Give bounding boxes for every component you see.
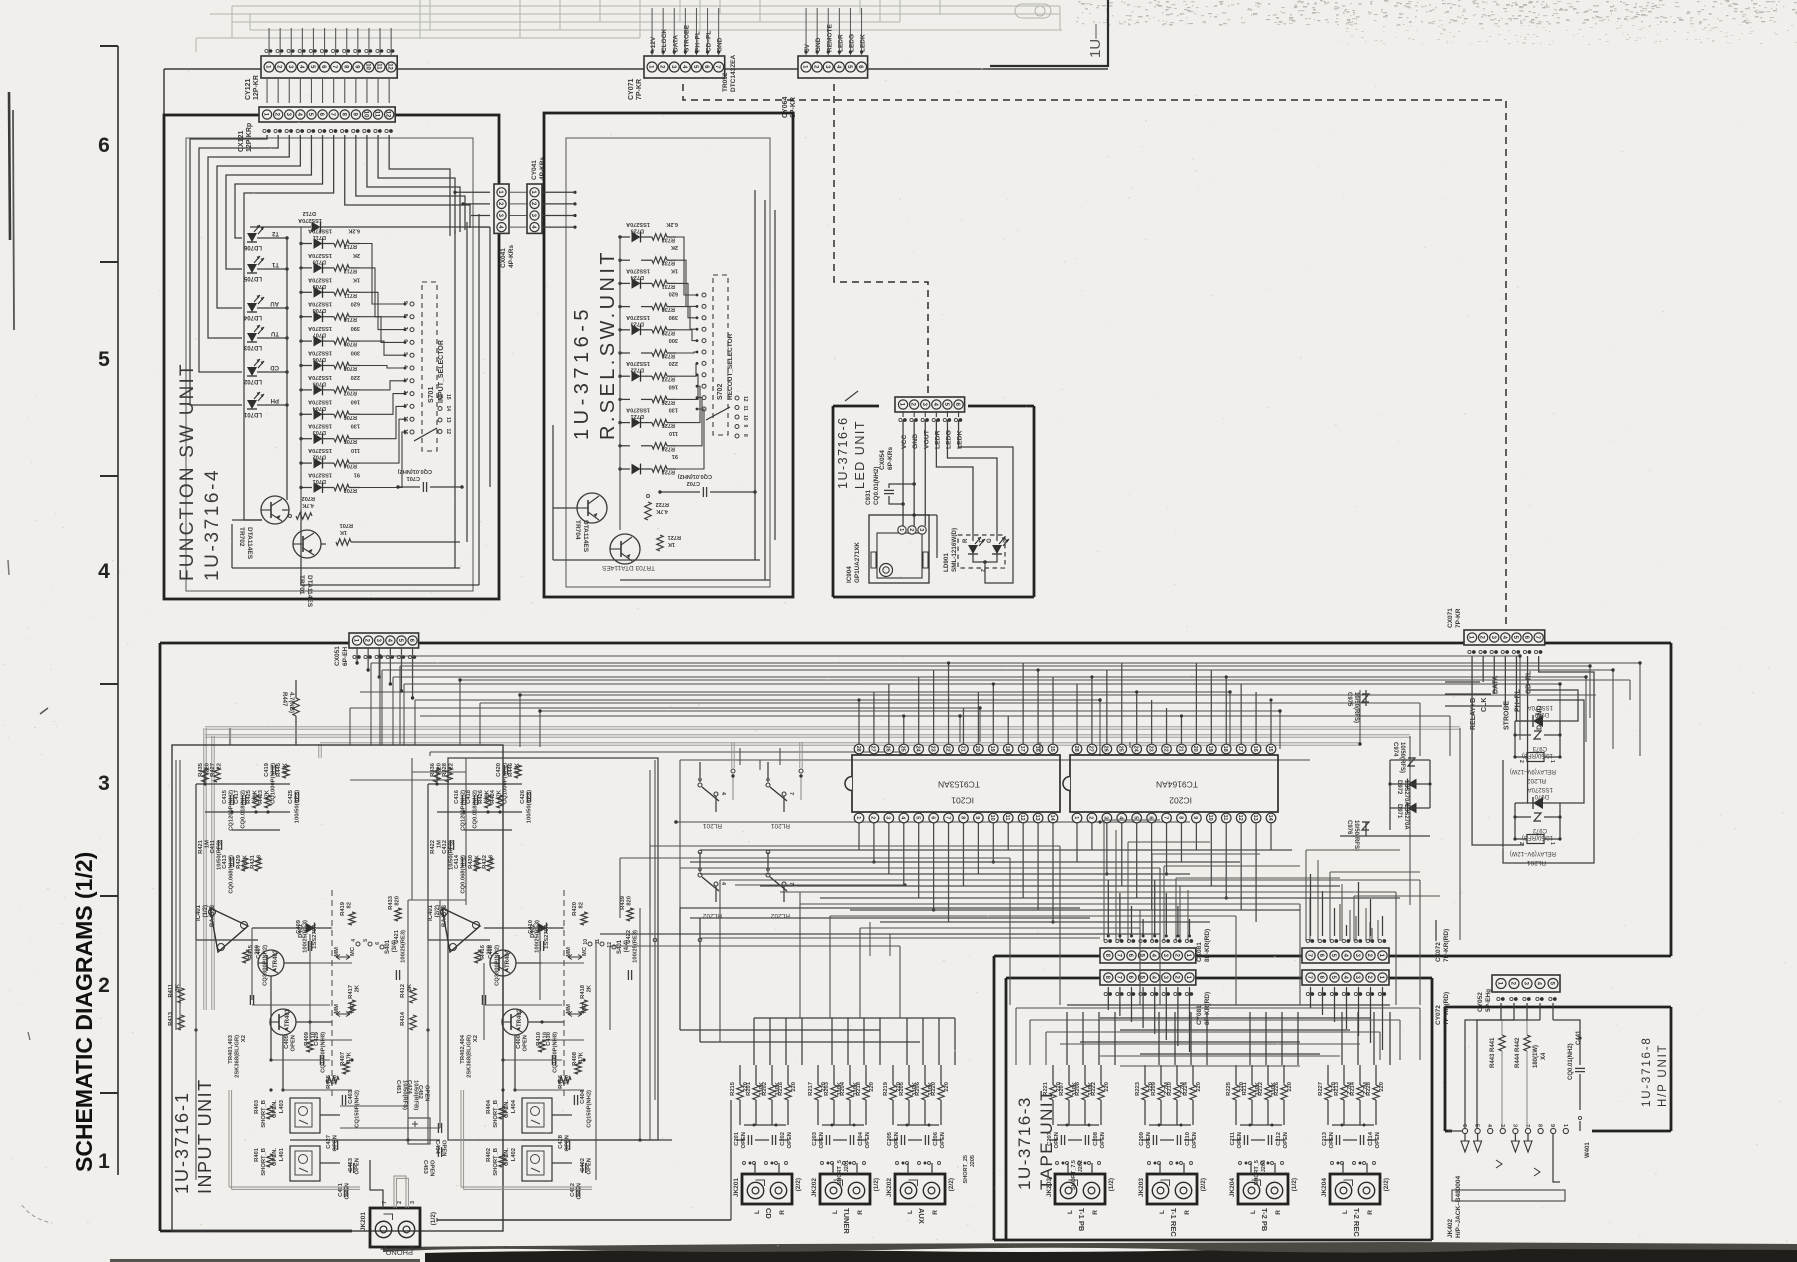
svg-text:D969: D969 <box>1534 711 1549 717</box>
svg-text:C428: C428 <box>558 1134 564 1149</box>
capacitor C973 10/50(RFS) <box>1515 734 1531 736</box>
svg-text:R702: R702 <box>302 495 315 501</box>
svg-text:CLK: CLK <box>1481 698 1488 712</box>
tape unit internal wires <box>1016 1007 1420 1009</box>
diode D708 1SS270A / resistor R710 620 <box>301 316 312 318</box>
svg-text:CQ1000P(NH8): CQ1000P(NH8) <box>553 1032 559 1073</box>
svg-text:1U-3716-4: 1U-3716-4 <box>202 468 223 581</box>
connector CY121 12P-KR <box>261 56 397 78</box>
svg-text:R224: R224 <box>1183 1081 1189 1096</box>
svg-text:R225: R225 <box>1226 1081 1232 1096</box>
wire staircase from CX121 into function unit <box>190 135 267 405</box>
svg-text:PH: PH <box>271 397 279 403</box>
svg-text:15: 15 <box>1267 746 1273 752</box>
svg-text:160: 160 <box>669 383 678 389</box>
connector CX121 12P-KRp <box>259 107 395 122</box>
svg-text:2SK368(BL/GR): 2SK368(BL/GR) <box>235 1035 241 1078</box>
svg-text:JK201: JK201 <box>733 1178 740 1198</box>
svg-text:220: 220 <box>1379 1082 1385 1092</box>
svg-text:5: 5 <box>914 816 920 819</box>
svg-text:1: 1 <box>402 403 408 406</box>
svg-text:REMOTE: REMOTE <box>826 24 833 52</box>
IC201 pin wires <box>858 700 860 744</box>
resistors R215 R201 R202 R216 <box>737 1085 743 1100</box>
wire LEDG pin5 to LD901 G <box>947 420 997 541</box>
svg-text:1K: 1K <box>353 276 360 282</box>
svg-text:2K: 2K <box>353 252 360 258</box>
S701 wiper <box>414 428 437 441</box>
svg-text:R404: R404 <box>486 1099 492 1114</box>
caps C207 C208 <box>1060 1135 1062 1145</box>
svg-text:D705: D705 <box>313 380 326 386</box>
svg-text:390: 390 <box>669 314 678 320</box>
svg-text:IC202: IC202 <box>1169 796 1192 806</box>
svg-text:D722: D722 <box>631 367 644 373</box>
svg-text:R210: R210 <box>1167 1082 1173 1096</box>
top bus line linking connectors <box>164 68 1108 70</box>
connector CX081 8P-KR(RD) <box>1100 948 1196 963</box>
svg-text:220: 220 <box>1287 1082 1293 1092</box>
inductor boxes L403 L401 <box>290 1098 320 1133</box>
svg-text:JK202: JK202 <box>886 1178 893 1198</box>
svg-text:220: 220 <box>1104 1082 1110 1092</box>
relay contact RL202 <box>699 852 701 872</box>
svg-text:C411: C411 <box>210 839 216 853</box>
svg-text:1SS270A: 1SS270A <box>308 447 332 453</box>
LED LD701 PH <box>247 233 257 242</box>
svg-text:JK402: JK402 <box>1447 1218 1454 1238</box>
RSEL ladder row R729 390 diode D723 <box>620 329 630 331</box>
svg-text:220: 220 <box>1196 1082 1202 1092</box>
svg-text:SHORT_5: SHORT_5 <box>1254 1160 1260 1185</box>
svg-text:13: 13 <box>1252 815 1258 821</box>
svg-text:C453: C453 <box>422 1160 428 1175</box>
svg-text:27: 27 <box>870 746 876 752</box>
svg-text:C451: C451 <box>395 1080 401 1095</box>
diode D710 1SS270A / resistor R712 2K <box>301 267 312 269</box>
svg-text:82: 82 <box>347 902 353 908</box>
svg-text:G: G <box>987 538 993 543</box>
svg-text:RECOUT_SELECTOR: RECOUT_SELECTOR <box>727 333 734 400</box>
svg-text:220: 220 <box>351 374 360 380</box>
caps C209 C210 <box>1152 1135 1154 1145</box>
left edge scan streaks <box>9 92 10 240</box>
horizontal distribution wires above jacks <box>754 1017 955 1019</box>
relay coil RL202 RELAY(9V-12W) <box>1515 756 1527 758</box>
svg-text:R422: R422 <box>430 840 436 854</box>
resistor R701 1K <box>336 539 351 545</box>
svg-text:SHORT_5: SHORT_5 <box>837 1160 843 1185</box>
page margin ruler <box>117 46 119 1175</box>
svg-text:R403: R403 <box>254 1099 260 1114</box>
svg-text:R728: R728 <box>662 353 675 359</box>
wire below phono <box>437 1219 731 1221</box>
svg-text:5P-EHg: 5P-EHg <box>1485 989 1492 1012</box>
svg-text:AU: AU <box>270 300 279 306</box>
svg-text:(2/2): (2/2) <box>1200 1178 1207 1191</box>
svg-text:4.7K: 4.7K <box>302 502 314 508</box>
svg-text:CQ0.01(NH2): CQ0.01(NH2) <box>1568 1043 1574 1080</box>
svg-text:OPEN: OPEN <box>587 1158 593 1174</box>
svg-text:100/25(RE3): 100/25(RE3) <box>401 930 407 963</box>
svg-text:AUX: AUX <box>917 1208 926 1224</box>
svg-text:D711: D711 <box>313 234 326 240</box>
svg-text:12: 12 <box>387 63 393 70</box>
svg-text:390: 390 <box>351 325 360 331</box>
svg-text:C417: C417 <box>234 790 240 804</box>
svg-text:9: 9 <box>974 816 980 819</box>
transistor TR702 DTA114ES <box>261 496 289 524</box>
svg-text:T-1 PB: T-1 PB <box>1077 1208 1086 1232</box>
svg-text:C209: C209 <box>1139 1131 1145 1146</box>
svg-text:C413: C413 <box>222 854 228 869</box>
svg-text:18: 18 <box>1222 746 1228 752</box>
svg-text:C206: C206 <box>933 1131 939 1146</box>
svg-text:C425: C425 <box>288 789 294 804</box>
svg-text:R: R <box>1092 1210 1099 1215</box>
svg-text:C207: C207 <box>1047 1132 1053 1146</box>
zener C974 10/50(RFS) <box>1408 758 1415 766</box>
svg-text:LD901: LD901 <box>943 553 950 572</box>
svg-text:L: L <box>1159 1210 1166 1214</box>
svg-text:7: 7 <box>944 816 950 819</box>
svg-text:R443 R441: R443 R441 <box>1490 1037 1496 1068</box>
svg-text:D725: D725 <box>631 228 644 234</box>
svg-text:10/50(RFS): 10/50(RFS) <box>1353 692 1359 723</box>
svg-text:L: L <box>754 1210 761 1214</box>
svg-text:L404: L404 <box>511 1099 517 1113</box>
diode D701 1SS270A / resistor R703 91 <box>301 487 312 489</box>
svg-text:R212: R212 <box>1258 1082 1264 1096</box>
ladder left rail <box>300 227 302 510</box>
svg-text:GP1UA271XK: GP1UA271XK <box>854 542 861 583</box>
svg-text:1U-3716-1: 1U-3716-1 <box>172 1091 192 1194</box>
svg-text:S401: S401 <box>385 939 391 954</box>
phono jack wires <box>370 1160 383 1208</box>
RSEL right rails <box>754 190 756 560</box>
svg-text:R444 R442: R444 R442 <box>1515 1037 1521 1068</box>
connector CY041 4P-KRs <box>527 184 542 233</box>
jack JK202 TUNER <box>820 1174 870 1204</box>
svg-text:CD–PL: CD–PL <box>706 31 713 52</box>
svg-text:1SS270A: 1SS270A <box>308 472 332 478</box>
wires RIAA <box>195 784 197 940</box>
transistor TR404 <box>490 950 516 976</box>
bottom scan band <box>425 1246 1797 1262</box>
svg-text:R730: R730 <box>662 306 675 312</box>
svg-text:16: 16 <box>1252 746 1258 752</box>
svg-text:2K: 2K <box>587 984 593 992</box>
svg-text:1K: 1K <box>671 267 678 273</box>
svg-text:1SS270A: 1SS270A <box>544 923 550 949</box>
svg-text:FUNCTION SW UNIT: FUNCTION SW UNIT <box>177 362 198 581</box>
RSEL ladder row R731 1K diode D724 <box>620 282 630 284</box>
svg-text:SHORT_25: SHORT_25 <box>963 1155 969 1183</box>
svg-text:C973: C973 <box>1532 745 1547 751</box>
svg-text:R726: R726 <box>662 399 675 405</box>
svg-text:16: 16 <box>402 429 408 435</box>
LD901 cathode join <box>973 554 997 562</box>
dashed net CY071 to CX071 <box>683 84 1506 628</box>
svg-text:CY121: CY121 <box>245 78 252 100</box>
wire VCC pin1 to IC904 <box>902 420 904 526</box>
svg-text:6: 6 <box>402 339 408 342</box>
svg-text:R226: R226 <box>1274 1081 1280 1096</box>
svg-text:10/50(RFS): 10/50(RFS) <box>1399 742 1405 773</box>
jack JK204 T-2 REC <box>1330 1174 1380 1204</box>
svg-text:R706: R706 <box>344 414 357 420</box>
svg-text:27: 27 <box>1088 746 1094 752</box>
svg-text:24: 24 <box>1132 746 1138 753</box>
svg-text:10: 10 <box>583 939 589 945</box>
resistors R219 R205 R206 R220 <box>890 1085 896 1100</box>
resistors R441 R443 <box>1501 1020 1503 1035</box>
svg-text:SHORT_B: SHORT_B <box>261 1148 267 1176</box>
svg-text:R723: R723 <box>662 469 675 475</box>
IC IC202 TC9164AN <box>1070 755 1278 812</box>
svg-text:STROBE: STROBE <box>683 24 690 52</box>
svg-text:BA4558: BA4558 <box>210 904 216 927</box>
svg-text:R703: R703 <box>344 487 357 493</box>
svg-text:110: 110 <box>669 430 678 436</box>
svg-text:160: 160 <box>351 398 360 404</box>
jack JK203 T-1 PB <box>1055 1174 1105 1204</box>
vertical feeds from jack clusters into main area <box>753 1018 755 1065</box>
svg-text:CX121: CX121 <box>238 130 245 152</box>
connector CY052 5P-EHg <box>1492 975 1560 992</box>
svg-text:3: 3 <box>696 778 702 781</box>
svg-text:1SS270A: 1SS270A <box>626 221 650 227</box>
svg-text:6: 6 <box>1147 816 1153 819</box>
IC lower horizontal wires <box>700 849 1292 851</box>
svg-text:17: 17 <box>1019 746 1025 752</box>
svg-text:3: 3 <box>410 1201 416 1204</box>
svg-text:R228: R228 <box>1366 1081 1372 1096</box>
jack pin stubs <box>1056 1162 1059 1165</box>
svg-text:RL201: RL201 <box>702 822 722 829</box>
svg-text:JK204: JK204 <box>1321 1178 1328 1198</box>
RSEL ladder row R732 2K <box>620 259 630 261</box>
svg-text:3: 3 <box>1103 816 1109 819</box>
svg-text:J205: J205 <box>970 1155 976 1167</box>
svg-text:9: 9 <box>742 425 748 428</box>
unit box FUNCTION SW UNIT 1U-3716-4 <box>164 115 499 599</box>
caps C201 C202 <box>747 1135 749 1145</box>
svg-text:IC201: IC201 <box>951 796 974 806</box>
svg-text:22: 22 <box>1162 746 1168 752</box>
svg-text:CD: CD <box>270 364 279 370</box>
svg-text:6: 6 <box>375 942 381 945</box>
svg-text:RELAY+B: RELAY+B <box>1470 698 1477 730</box>
wires into CX041 from function unit <box>455 191 490 193</box>
svg-text:C406: C406 <box>516 1034 522 1049</box>
svg-text:R216: R216 <box>778 1081 784 1096</box>
svg-text:8: 8 <box>959 816 965 819</box>
svg-text:15: 15 <box>1049 746 1055 752</box>
svg-text:R725: R725 <box>662 422 675 428</box>
H/P wires <box>1500 1003 1502 1020</box>
svg-text:(2/2): (2/2) <box>1383 1178 1390 1191</box>
svg-text:R722: R722 <box>656 501 669 507</box>
svg-text:X2: X2 <box>241 1035 247 1042</box>
svg-text:C975: C975 <box>1346 692 1352 707</box>
svg-text:TR401: TR401 <box>285 1008 291 1027</box>
LED cathode rail <box>286 238 288 500</box>
svg-text:RL202: RL202 <box>1526 777 1546 784</box>
svg-text:1: 1 <box>977 540 983 543</box>
svg-text:(2/2): (2/2) <box>795 1178 802 1191</box>
svg-text:C701: C701 <box>407 475 420 481</box>
svg-text:1SS270A: 1SS270A <box>1528 704 1553 710</box>
svg-text:CY072: CY072 <box>1435 1005 1442 1025</box>
connector CX072 7P-KR(RD) <box>1302 948 1389 963</box>
svg-text:J202: J202 <box>1078 1160 1084 1172</box>
tape unit box 1U-3716-3 <box>1006 977 1100 980</box>
svg-text:GND: GND <box>815 37 822 52</box>
svg-text:IC401: IC401 <box>196 904 202 921</box>
svg-text:SHORT_B: SHORT_B <box>493 1148 499 1176</box>
S702 wiper <box>706 407 730 420</box>
svg-text:5: 5 <box>98 348 110 371</box>
svg-text:R413: R413 <box>168 1011 174 1026</box>
svg-text:SHORT_B: SHORT_B <box>493 1100 499 1128</box>
svg-text:10: 10 <box>364 63 370 70</box>
svg-text:R223: R223 <box>1135 1081 1141 1096</box>
svg-text:26: 26 <box>1103 746 1109 752</box>
svg-text:C426: C426 <box>520 789 526 804</box>
svg-text:T-2 PB: T-2 PB <box>1260 1208 1269 1232</box>
svg-text:X4: X4 <box>1541 1052 1547 1060</box>
svg-text:2: 2 <box>402 391 408 394</box>
svg-text:1U-3716-8: 1U-3716-8 <box>1641 1036 1653 1107</box>
svg-text:L: L <box>380 1246 387 1250</box>
svg-text:CX041: CX041 <box>500 248 507 268</box>
svg-text:R: R <box>1184 1210 1191 1215</box>
relay contact RL201 <box>699 762 701 782</box>
svg-text:TR404: TR404 <box>505 949 511 968</box>
svg-text:1U-3716-6: 1U-3716-6 <box>836 416 850 489</box>
svg-text:C404: C404 <box>580 1089 586 1104</box>
function unit bottom wires <box>231 524 233 568</box>
svg-text:R436: R436 <box>430 762 436 777</box>
input unit extra wires <box>175 760 177 1030</box>
svg-text:JK201: JK201 <box>360 1212 367 1232</box>
svg-text:CQ1000P(NH8): CQ1000P(NH8) <box>321 1032 327 1073</box>
svg-text:2: 2 <box>98 974 110 997</box>
svg-text:C211: C211 <box>1230 1131 1236 1145</box>
svg-text:TR703 DTA114ES: TR703 DTA114ES <box>601 564 655 571</box>
resistor R702 4.7K <box>296 513 312 519</box>
capacitor C441 CQ0.01(NH2) <box>1579 1038 1581 1065</box>
svg-text:1M: 1M <box>205 840 211 848</box>
wires CY041 into RSEL unit <box>542 191 575 193</box>
svg-text:1: 1 <box>898 528 904 531</box>
svg-text:11: 11 <box>742 406 748 412</box>
connector CX041 4P-KRs <box>494 184 509 233</box>
svg-text:CY052: CY052 <box>1477 992 1484 1012</box>
svg-text:91: 91 <box>672 453 678 459</box>
svg-text:CX071: CX071 <box>1447 608 1454 628</box>
svg-text:LEDK: LEDK <box>957 430 964 449</box>
svg-text:R215: R215 <box>730 1081 736 1096</box>
svg-text:5V: 5V <box>804 43 811 52</box>
svg-text:R202: R202 <box>762 1082 768 1096</box>
svg-text:TR702: TR702 <box>238 527 245 547</box>
svg-text:R: R <box>410 1245 417 1250</box>
svg-text:R: R <box>1367 1210 1374 1215</box>
jack JK204 T-2 PB <box>1238 1174 1288 1204</box>
svg-text:R214: R214 <box>1350 1081 1356 1096</box>
IC IC201 TC9153AN <box>852 755 1060 812</box>
svg-text:LD705: LD705 <box>243 275 262 281</box>
svg-text:1SS270A: 1SS270A <box>308 325 332 331</box>
svg-text:620: 620 <box>669 291 678 297</box>
svg-text:PHONO: PHONO <box>385 1248 413 1257</box>
svg-text:2K: 2K <box>671 244 678 250</box>
inductor boxes L404 L402 <box>522 1098 552 1133</box>
wires around transistors <box>428 939 490 941</box>
svg-text:R213: R213 <box>1334 1081 1340 1096</box>
svg-text:220: 220 <box>791 1082 797 1092</box>
svg-text:CY071: CY071 <box>628 78 635 100</box>
gray shielded trace pair input to tape <box>229 728 231 745</box>
svg-text:IC904: IC904 <box>846 566 853 583</box>
wires CX041-CY041 <box>509 191 527 193</box>
svg-text:12: 12 <box>1237 815 1243 821</box>
svg-text:R419: R419 <box>340 901 346 916</box>
svg-text:7: 7 <box>402 327 408 330</box>
svg-text:SHORT_B: SHORT_B <box>261 1100 267 1128</box>
svg-text:R426: R426 <box>478 789 484 804</box>
svg-text:6: 6 <box>764 778 770 781</box>
svg-text:LED UNIT: LED UNIT <box>853 420 867 489</box>
svg-text:8P-KR(RD): 8P-KR(RD) <box>1204 929 1211 962</box>
svg-text:4: 4 <box>720 882 726 886</box>
svg-text:INPUT UNIT: INPUT UNIT <box>195 1078 215 1194</box>
svg-text:R427: R427 <box>210 763 216 777</box>
transistor TR403 <box>258 950 284 976</box>
resistors R227 R213 R214 R228 <box>1325 1085 1331 1100</box>
wire across relay contacts <box>676 821 1190 823</box>
svg-text:11: 11 <box>374 111 380 118</box>
svg-text:820: 820 <box>395 896 401 906</box>
resistors R221 R207 R208 R222 <box>1050 1085 1056 1100</box>
svg-text:C214: C214 <box>1368 1131 1374 1146</box>
svg-text:LD702: LD702 <box>243 378 262 384</box>
IC IC904 GP1UA271XK <box>869 515 929 583</box>
top-right scan speckle <box>1076 0 1797 45</box>
svg-text:16: 16 <box>1034 746 1040 752</box>
relay aux wires <box>1390 759 1430 761</box>
svg-text:LEDR: LEDR <box>934 430 941 449</box>
diode D402 1SS270A <box>538 923 547 934</box>
RSEL ladder row R726 160 <box>620 398 630 400</box>
channel bottom wires <box>290 1139 440 1141</box>
diode D709 1SS270A / resistor R711 1K <box>301 291 312 293</box>
svg-text:2: 2 <box>1088 816 1094 819</box>
diode D703 1SS270A / resistor R705 130 <box>301 438 312 440</box>
svg-text:LEDR: LEDR <box>837 34 844 52</box>
svg-text:R227: R227 <box>1318 1082 1324 1096</box>
svg-text:X2: X2 <box>473 1035 479 1042</box>
svg-text:R732: R732 <box>662 260 675 266</box>
svg-text:7: 7 <box>788 792 794 795</box>
svg-text:R401: R401 <box>254 1147 260 1162</box>
wires around transistors <box>196 939 258 941</box>
diode D972 1SS270A <box>1408 779 1417 790</box>
svg-text:R418: R418 <box>580 984 586 999</box>
svg-text:C409: C409 <box>296 919 302 934</box>
